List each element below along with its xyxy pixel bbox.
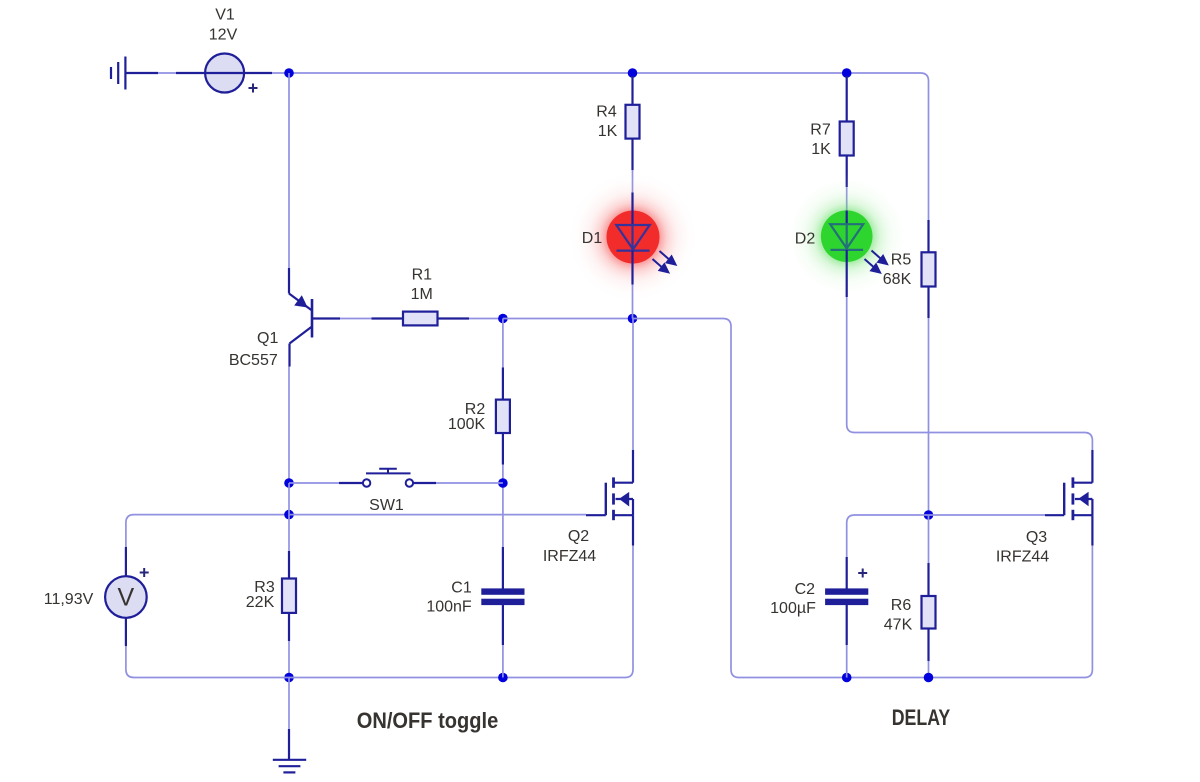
node R5/R6/gate xyxy=(924,510,934,520)
wire top rail xyxy=(289,73,929,220)
capacitor C1 100nF xyxy=(426,547,523,645)
svg-text:11,93V: 11,93V xyxy=(44,591,94,608)
wire GND1 to V1 xyxy=(158,72,176,74)
wire SW1 to node xyxy=(436,482,503,484)
transistor Q1 BC557 xyxy=(229,268,340,369)
resistor R4 1K xyxy=(596,76,639,170)
svg-text:R1: R1 xyxy=(412,267,433,284)
resistor R2 100K xyxy=(448,368,510,465)
svg-text:100nF: 100nF xyxy=(426,599,472,616)
svg-text:22K: 22K xyxy=(246,594,275,611)
wire Q1 base to R1 xyxy=(340,318,372,320)
node D1 bottom / Q2 drain xyxy=(628,314,638,324)
node top rail / R7 xyxy=(842,68,852,78)
svg-text:Q1: Q1 xyxy=(257,330,278,347)
svg-text:1K: 1K xyxy=(811,141,831,158)
svg-text:ON/OFF toggle: ON/OFF toggle xyxy=(357,708,499,733)
svg-text:SW1: SW1 xyxy=(369,497,404,514)
svg-text:100K: 100K xyxy=(448,416,486,433)
wire C2 to bottom rail xyxy=(846,645,848,678)
svg-text:V: V xyxy=(118,584,135,612)
wire R2/C1 column xyxy=(502,483,504,547)
svg-text:Q2: Q2 xyxy=(568,528,589,545)
svg-text:IRFZ44: IRFZ44 xyxy=(996,549,1049,566)
wire R6 to bottom rail xyxy=(928,661,930,678)
svg-text:100µF: 100µF xyxy=(770,600,816,617)
node gate row left xyxy=(284,510,294,520)
svg-text:IRFZ44: IRFZ44 xyxy=(543,548,596,565)
wire to SW1 xyxy=(289,482,339,484)
wire Q2 drain up to node xyxy=(632,319,634,451)
wire left column between nodes xyxy=(288,483,290,551)
node bottom rail / R6 xyxy=(924,673,934,683)
svg-text:C1: C1 xyxy=(451,580,472,597)
switch SW1 (push button) xyxy=(339,469,436,514)
wire R2 to SW node xyxy=(502,465,504,484)
LED D2 (green, lit) xyxy=(783,172,911,300)
wire R1 to node xyxy=(469,318,503,320)
wire R7 to D2 xyxy=(846,187,848,211)
resistor R7 1K xyxy=(810,76,853,187)
wire node to node D1 xyxy=(503,318,633,320)
capacitor C2 100uF xyxy=(770,557,867,645)
wire Q1 collector down xyxy=(288,367,290,484)
node R1/R2 xyxy=(498,314,508,324)
wire gate node to R6 xyxy=(928,515,930,563)
svg-text:47K: 47K xyxy=(884,617,913,634)
resistor R1 1M xyxy=(372,267,470,326)
wire voltmeter top to gate row xyxy=(126,515,289,547)
node bottom rail / C1 xyxy=(498,673,508,683)
wire bottom rail to ground xyxy=(288,678,290,730)
wire R4 to D1 xyxy=(632,170,634,193)
wire node D1 to right bottom rail xyxy=(633,319,1093,678)
ground GND1 (top-left, rotated) xyxy=(111,57,158,90)
svg-text:R4: R4 xyxy=(596,104,617,121)
svg-text:D2: D2 xyxy=(795,231,816,248)
svg-text:V1: V1 xyxy=(215,7,235,24)
svg-text:DELAY: DELAY xyxy=(892,705,951,730)
svg-text:D1: D1 xyxy=(582,230,603,247)
resistor R5 68K xyxy=(883,220,936,318)
wire D2 to Q3 drain xyxy=(847,297,1093,450)
node bottom rail / C2 xyxy=(842,673,852,683)
mosfet Q2 IRFZ44 xyxy=(543,450,633,565)
svg-text:1K: 1K xyxy=(598,123,618,140)
node top rail / R4 xyxy=(628,68,638,78)
svg-text:1M: 1M xyxy=(411,286,433,303)
svg-text:68K: 68K xyxy=(883,271,912,288)
node bottom rail / R3 xyxy=(284,673,294,683)
resistor R3 22K xyxy=(246,551,296,641)
ground GND2 (bottom) xyxy=(273,729,306,772)
wire bottom-left rail xyxy=(126,546,633,678)
svg-text:Q3: Q3 xyxy=(1026,529,1047,546)
wire node to R2 xyxy=(502,319,504,368)
svg-text:R6: R6 xyxy=(891,597,912,614)
node SW1 right xyxy=(498,478,508,488)
wire C2 top to Q3 gate xyxy=(847,515,1045,557)
voltage source V1 12V xyxy=(176,7,272,93)
svg-text:R5: R5 xyxy=(891,252,912,269)
node SW1 left xyxy=(284,478,294,488)
svg-text:R7: R7 xyxy=(810,122,831,139)
svg-text:12V: 12V xyxy=(209,27,238,44)
wire R3 to bottom rail xyxy=(288,641,290,678)
resistor R6 47K xyxy=(884,563,936,661)
wire supply column to Q1 xyxy=(288,73,290,268)
svg-text:C2: C2 xyxy=(795,581,816,598)
wire R5 down to gate node xyxy=(928,318,930,515)
wire V1 to top rail xyxy=(272,72,289,74)
mosfet Q3 IRFZ44 xyxy=(996,450,1093,566)
voltmeter VM 11,93V xyxy=(44,547,149,646)
LED D1 (red, lit) xyxy=(567,171,699,303)
wire D1 to node xyxy=(632,285,634,319)
wire gate row to Q2 xyxy=(289,514,586,516)
node top rail / Q1 emitter xyxy=(284,68,294,78)
svg-text:BC557: BC557 xyxy=(229,352,278,369)
wire C1 to bottom rail xyxy=(502,645,504,678)
